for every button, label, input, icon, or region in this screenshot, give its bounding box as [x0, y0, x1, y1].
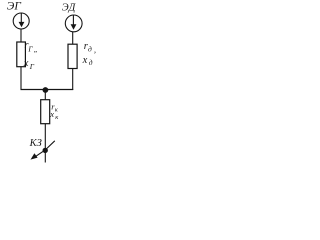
- label r_д: [84, 41, 96, 55]
- svg-text:д: д: [89, 58, 93, 67]
- wire r_к box to fault point: [44, 124, 46, 163]
- wire r_д box to bus: [72, 69, 74, 91]
- label r_Г: [24, 40, 38, 54]
- svg-text:д: д: [88, 45, 92, 54]
- svg-text:Г: Г: [27, 44, 33, 53]
- wire r_Г box to bus: [20, 67, 22, 90]
- svg-text:x: x: [23, 58, 29, 69]
- wire ЭД to r_д box: [72, 32, 74, 45]
- resistor r_д x_д box: [68, 44, 77, 68]
- bus wire (horizontal): [21, 89, 74, 91]
- svg-text:КЗ: КЗ: [29, 138, 42, 149]
- svg-text:x: x: [82, 55, 88, 66]
- wire junction to r_к box: [44, 90, 46, 100]
- svg-text:ЭГ: ЭГ: [7, 1, 22, 13]
- junction node dot: [43, 87, 49, 93]
- source ЭГ (circle with down arrow): [13, 13, 29, 29]
- label x_д: [82, 55, 93, 67]
- svg-text:ЭД: ЭД: [62, 3, 77, 14]
- svg-text:x: x: [49, 109, 54, 119]
- fault node dot: [43, 148, 48, 153]
- source ЭД (circle with down arrow): [65, 15, 82, 32]
- resistor r_Г x_Г box: [17, 42, 26, 67]
- svg-text:к: к: [55, 107, 59, 114]
- label x_Г: [23, 58, 35, 71]
- source ЭД arrowhead: [71, 24, 77, 29]
- fault arrowhead: [31, 153, 38, 159]
- fault arrow shaft: [36, 141, 55, 157]
- svg-text:к: к: [55, 114, 59, 121]
- svg-text:Г: Г: [29, 62, 35, 71]
- wire ЭГ to r_Г box: [20, 29, 22, 42]
- label r_к: [51, 101, 59, 113]
- source ЭГ arrowhead: [19, 22, 25, 27]
- svg-text:,: ,: [94, 46, 96, 55]
- label x_к: [49, 109, 59, 121]
- resistor r_к x_к box: [41, 100, 50, 124]
- svg-text:„: „: [34, 45, 38, 54]
